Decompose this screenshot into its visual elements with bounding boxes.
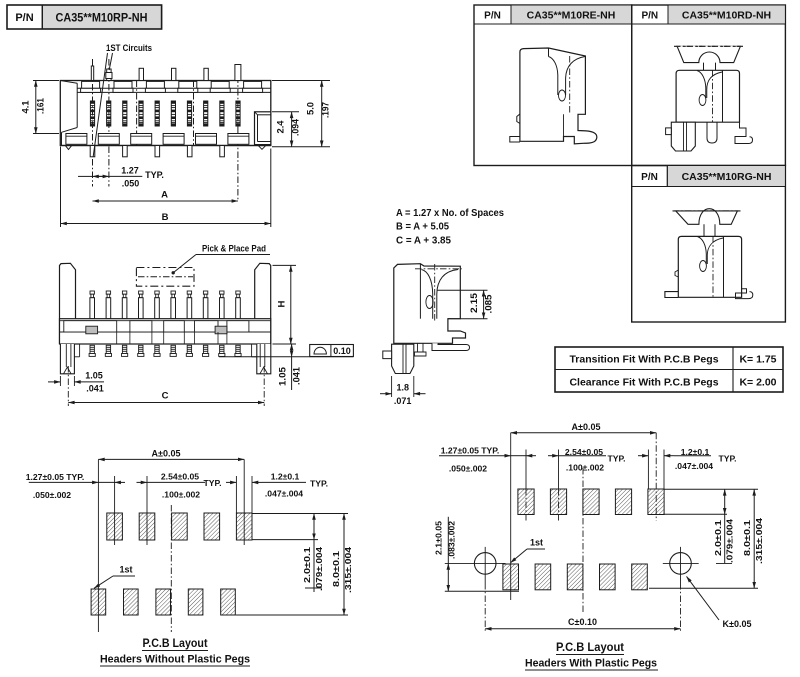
front view right post: [255, 263, 271, 344]
svg-text:K= 1.75: K= 1.75: [739, 354, 776, 366]
pcb right titles: [525, 642, 658, 670]
svg-text:.094: .094: [291, 119, 301, 136]
flatness tolerance box: [310, 345, 354, 357]
svg-text:2.0±0.1: 2.0±0.1: [713, 520, 723, 556]
svg-text:TYP.: TYP.: [310, 479, 328, 489]
top view bottom nub triangles: [66, 146, 266, 150]
circuit 10 centerline: [237, 64, 239, 201]
RE variant side view: [510, 48, 597, 144]
svg-text:2.54±0.05: 2.54±0.05: [565, 447, 603, 457]
svg-text:A±0.05: A±0.05: [572, 422, 601, 432]
svg-text:.041: .041: [292, 367, 302, 385]
svg-text:Headers Without Plastic Pegs: Headers Without Plastic Pegs: [100, 654, 250, 666]
dimension A: [93, 190, 238, 202]
svg-text:Pick & Place Pad: Pick & Place Pad: [202, 244, 266, 254]
svg-text:2.1±0.05: 2.1±0.05: [434, 521, 444, 555]
side view left peg: [383, 344, 414, 373]
svg-text:.315±.004: .315±.004: [754, 518, 764, 564]
left leg centerline: [67, 366, 69, 406]
svg-text:.083±.002: .083±.002: [447, 521, 457, 559]
front view left leg: [60, 344, 79, 374]
svg-text:C = A + 3.85: C = A + 3.85: [396, 235, 451, 246]
svg-text:P/N: P/N: [484, 11, 501, 22]
pcb right dimension 2.1 left: [434, 517, 519, 591]
svg-text:1.27±0.05 TYP.: 1.27±0.05 TYP.: [441, 446, 500, 456]
side view cavity: [415, 264, 462, 322]
dimension 1.05/.041 right: [278, 344, 302, 390]
top view lower pins: [90, 146, 224, 157]
svg-text:1.2±0.1: 1.2±0.1: [681, 447, 710, 457]
pcb left dimension 8.0: [236, 514, 353, 616]
1ST Circuits label: [93, 43, 152, 157]
pcb right 1st label: [511, 538, 546, 563]
pcb right dimension 2.0: [664, 489, 758, 563]
pcb layout right: top row pads: [518, 489, 664, 515]
svg-text:.050: .050: [122, 179, 140, 189]
svg-text:2.54±0.05: 2.54±0.05: [161, 472, 199, 482]
pcb layout left: top row pads: [107, 513, 252, 540]
svg-text:1st: 1st: [119, 565, 132, 575]
svg-text:Headers With Plastic Pegs: Headers With Plastic Pegs: [525, 658, 657, 670]
svg-text:1.05: 1.05: [278, 367, 288, 386]
dimension 1.27/.050 TYP: [78, 166, 164, 189]
svg-text:2.0±0.1: 2.0±0.1: [302, 547, 312, 583]
svg-text:2.15: 2.15: [469, 293, 479, 313]
side view bottom legs: [415, 343, 470, 356]
dimension 1.8/.071: [380, 376, 426, 406]
box CA35**M10RE-NH: [474, 5, 632, 166]
svg-text:.085: .085: [484, 295, 494, 314]
svg-text:5.0: 5.0: [306, 102, 316, 115]
svg-text:.071: .071: [394, 396, 412, 406]
pick and place label: [172, 244, 271, 275]
top view left end cap: [60, 81, 77, 146]
svg-text:1.27: 1.27: [121, 166, 139, 176]
svg-text:TYP.: TYP.: [719, 454, 737, 464]
svg-text:.047±.004: .047±.004: [675, 461, 713, 471]
pcb right peg circles: [445, 547, 699, 632]
svg-text:1.8: 1.8: [396, 383, 409, 393]
svg-text:.079±.004: .079±.004: [314, 547, 324, 591]
front view body band: [60, 319, 271, 344]
pcb right dimension 8.0: [649, 489, 764, 588]
svg-text:.197: .197: [321, 102, 331, 118]
pcb right dimension A±0.05: [511, 422, 657, 433]
pcb layout right: bottom row pads: [503, 564, 647, 590]
svg-text:B: B: [162, 212, 169, 223]
pcb left 1st label: [94, 565, 135, 589]
front view right leg: [252, 344, 271, 374]
svg-text:2.4: 2.4: [276, 121, 286, 134]
svg-text:P/N: P/N: [15, 12, 33, 24]
right leg centerline: [263, 366, 265, 406]
svg-text:P.C.B Layout: P.C.B Layout: [143, 638, 208, 650]
svg-text:Clearance Fit With P.C.B Pegs: Clearance Fit With P.C.B Pegs: [569, 377, 718, 389]
top view top band lines: [77, 88, 271, 92]
svg-text:.100±.002: .100±.002: [162, 490, 200, 500]
top view upper pins: [91, 65, 241, 81]
dimension 2.4/.094: [272, 112, 301, 147]
svg-text:1.05: 1.05: [85, 371, 103, 381]
svg-text:CA35**M10RG-NH: CA35**M10RG-NH: [682, 171, 772, 183]
svg-text:K= 2.00: K= 2.00: [739, 377, 776, 389]
svg-text:TYP.: TYP.: [145, 170, 164, 180]
svg-text:P.C.B Layout: P.C.B Layout: [556, 642, 624, 654]
svg-text:.161: .161: [36, 98, 46, 114]
svg-text:CA35**M10RP-NH: CA35**M10RP-NH: [56, 11, 148, 25]
svg-text:1ST Circuits: 1ST Circuits: [106, 43, 152, 53]
svg-text:A±0.05: A±0.05: [152, 448, 181, 458]
svg-text:4.1: 4.1: [21, 101, 31, 114]
circuit 2 centerline: [108, 59, 110, 187]
pcb right dimension C±0.10: [485, 617, 680, 629]
svg-text:C±0.10: C±0.10: [568, 617, 597, 627]
P/N title box CA35**M10RP-NH: [7, 5, 162, 29]
svg-text:CA35**M10RD-NH: CA35**M10RD-NH: [682, 10, 771, 22]
pick and place pad: [136, 268, 194, 287]
top view body outline: [60, 81, 270, 146]
front view bottom pins row: [89, 345, 241, 356]
svg-text:A: A: [161, 190, 168, 201]
top view right latch box: [255, 112, 271, 145]
front view left post: [60, 263, 76, 344]
svg-text:.079±.004: .079±.004: [725, 519, 735, 563]
dimension 5.0/.197 right: [272, 81, 331, 147]
pcb layout left: bottom row pads: [91, 589, 235, 615]
svg-text:8.0±0.1: 8.0±0.1: [742, 520, 752, 556]
svg-text:.315±.004: .315±.004: [343, 547, 353, 593]
svg-text:P/N: P/N: [641, 172, 658, 183]
svg-text:C: C: [162, 391, 169, 402]
svg-text:TYP.: TYP.: [204, 478, 222, 488]
dimension 2.15/.085: [437, 290, 494, 319]
pcb left dimension A±0.05: [98, 448, 244, 459]
RD variant side view: [666, 46, 753, 151]
top view contacts row (10 hatched contacts): [90, 101, 240, 126]
side view body RP: [394, 264, 466, 344]
svg-text:.050±.002: .050±.002: [33, 490, 71, 500]
svg-text:Transition Fit With P.C.B Pegs: Transition Fit With P.C.B Pegs: [569, 354, 718, 366]
svg-text:H: H: [277, 300, 288, 307]
pcb left dimension 2.0: [252, 514, 348, 593]
formulas note: [396, 208, 504, 246]
pcb right dimension 1.27 row: [439, 446, 737, 474]
front view top pins row: [90, 291, 240, 319]
box CA35**M10RD-NH: [632, 5, 786, 166]
svg-text:.100±.002: .100±.002: [566, 463, 604, 473]
top view bottom band tabs: [62, 134, 271, 146]
svg-text:P/N: P/N: [641, 11, 658, 22]
svg-text:.041: .041: [86, 384, 104, 394]
pcb left dimension 1.27 row: [26, 472, 328, 501]
svg-text:TYP.: TYP.: [608, 454, 626, 464]
top view top slots: [81, 81, 263, 92]
svg-text:1.2±0.1: 1.2±0.1: [271, 472, 300, 482]
svg-text:.050±.002: .050±.002: [449, 464, 487, 474]
svg-text:1st: 1st: [530, 538, 543, 548]
dimension B: [61, 147, 271, 228]
pcb left titles: [100, 638, 250, 666]
pcb right centerlines: [511, 433, 664, 612]
pcb left centerlines: [98, 459, 252, 632]
box CA35**M10RG-NH: [632, 166, 786, 323]
svg-text:0.10: 0.10: [333, 346, 351, 356]
svg-text:A = 1.27 x No. of Spaces: A = 1.27 x No. of Spaces: [396, 208, 504, 219]
dimension H: [273, 265, 297, 344]
dimension C: [68, 391, 264, 403]
pcb right K±0.05 label: [687, 576, 752, 629]
dimension 1.05/.041 left: [48, 371, 104, 394]
RG variant side view: [665, 209, 753, 299]
svg-text:.047±.004: .047±.004: [265, 489, 303, 499]
seating plane line: [219, 356, 353, 358]
dimension 4.1/.161 left: [21, 81, 60, 134]
top view break lines: [137, 81, 194, 146]
svg-text:8.0±0.1: 8.0±0.1: [331, 551, 341, 587]
svg-text:K±0.05: K±0.05: [723, 619, 752, 629]
circuit 1 centerline: [92, 59, 94, 187]
fit table: [555, 347, 783, 392]
svg-text:CA35**M10RE-NH: CA35**M10RE-NH: [527, 10, 616, 22]
svg-text:1.27±0.05 TYP.: 1.27±0.05 TYP.: [26, 472, 85, 482]
svg-text:B = A + 5.05: B = A + 5.05: [396, 222, 449, 233]
